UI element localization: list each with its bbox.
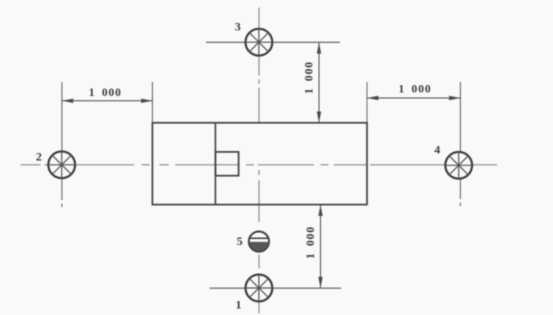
svg-text:1 000: 1 000 (398, 84, 431, 96)
vertical centerline through nodes 3, 5, 1 (258, 8, 260, 314)
svg-text:2: 2 (36, 149, 42, 163)
svg-text:1 000: 1 000 (89, 87, 122, 99)
node 5 : half-filled circle symbol (249, 232, 269, 252)
horizontal axis line through node 3 (206, 41, 340, 43)
dimension 1 000 (upper right vertical) (317, 42, 321, 122)
svg-text:1: 1 (236, 298, 242, 312)
machine outline rectangle (152, 123, 367, 205)
svg-text:4: 4 (434, 142, 440, 156)
small square detail on partition (215, 152, 238, 176)
dimension 1 000 (right horizontal) (367, 96, 460, 100)
extension line above rectangle right edge (366, 82, 368, 123)
horizontal centerline through nodes 2 and 4 (21, 164, 498, 166)
horizontal axis line through node 1 (210, 287, 342, 289)
dimension 1 000 (lower right vertical) (318, 205, 322, 288)
node 4 : spoked circle (445, 152, 472, 179)
extension line / axis of node 2 (61, 82, 63, 200)
svg-text:1 000: 1 000 (305, 226, 317, 259)
extension line / axis of node 4 (459, 82, 461, 199)
svg-text:5: 5 (237, 234, 243, 248)
svg-text:3: 3 (235, 20, 241, 34)
node 1 : spoked circle (246, 275, 273, 302)
dimension 1 000 (left horizontal) (62, 99, 152, 103)
node 2 : spoked circle (48, 151, 75, 178)
node 3 : spoked circle (246, 29, 273, 56)
svg-text:1 000: 1 000 (303, 61, 315, 94)
extension line above rectangle left edge (151, 82, 153, 123)
inner partition line (214, 123, 216, 205)
